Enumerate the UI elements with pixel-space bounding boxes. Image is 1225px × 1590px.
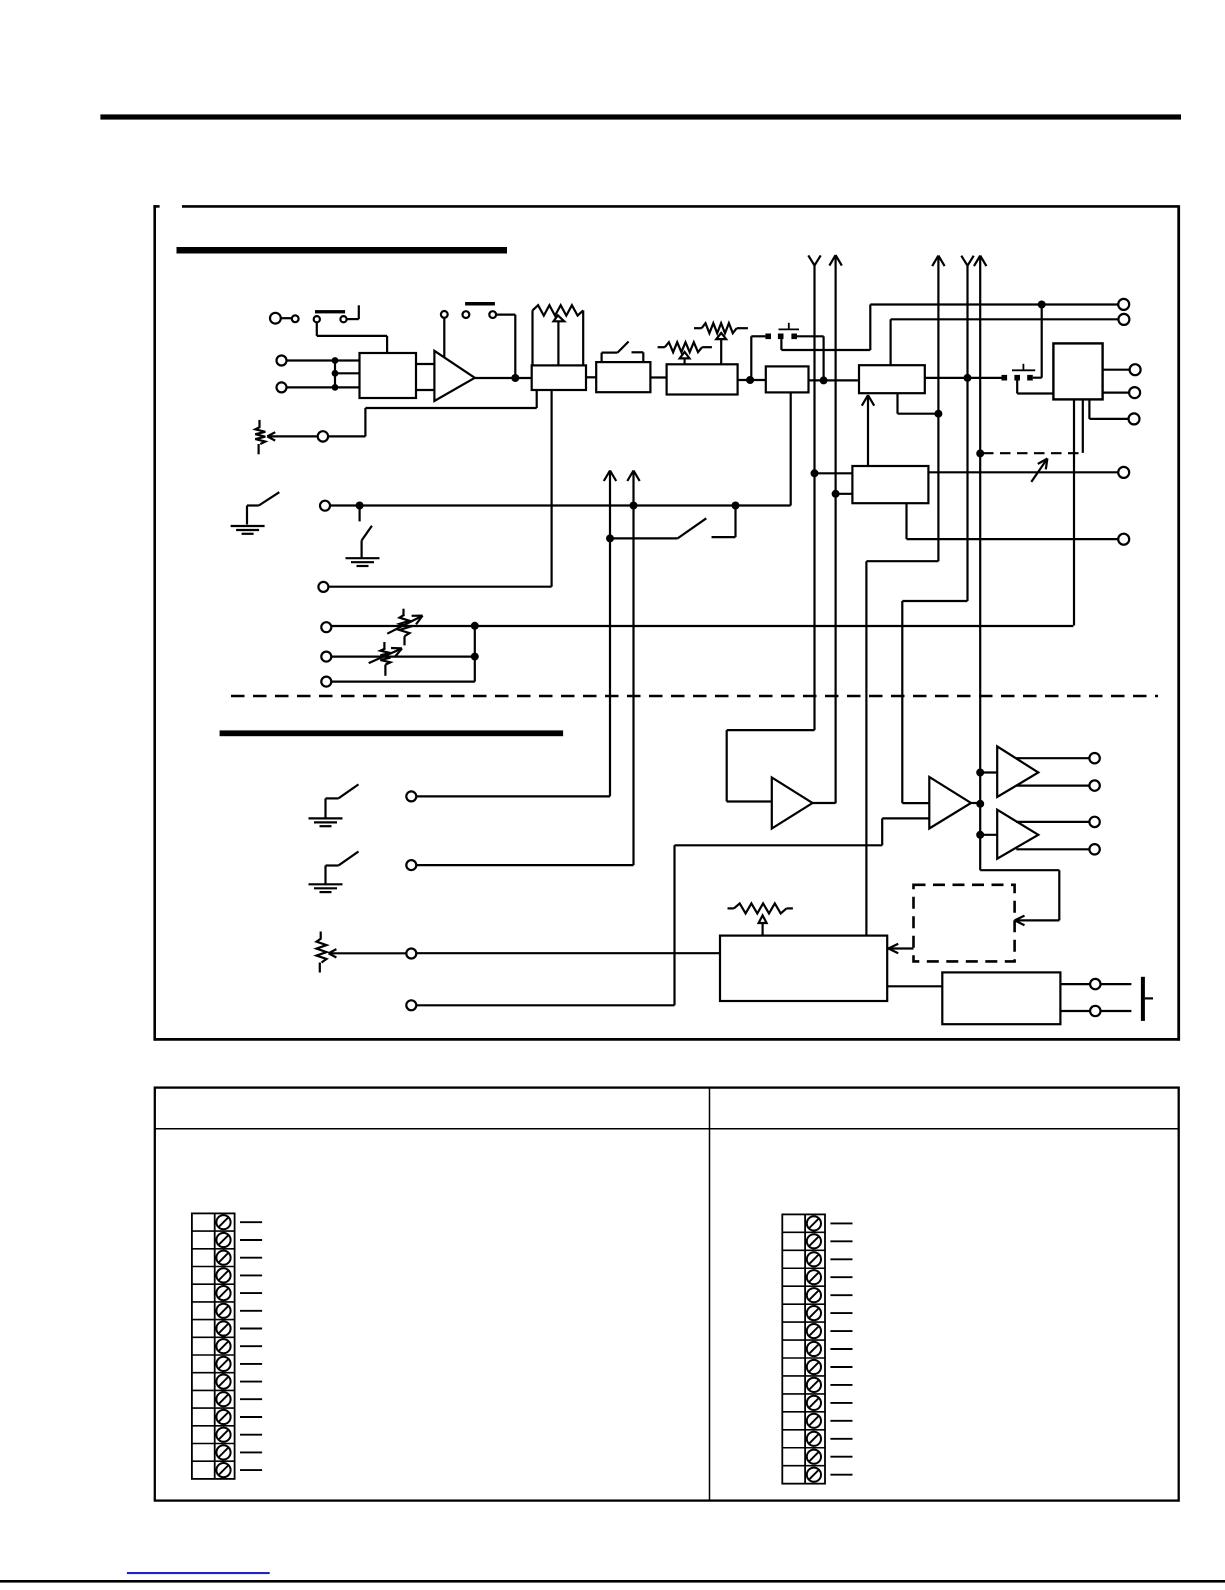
output terminal 4 — [1129, 387, 1140, 398]
node I — [471, 622, 479, 630]
trim terminal 3 — [321, 622, 331, 632]
node C — [1038, 301, 1046, 309]
diagram box border — [153, 205, 156, 1040]
buffer B2 — [929, 777, 971, 829]
ground G2 — [346, 557, 380, 559]
gain adjust arrow — [1031, 459, 1047, 482]
U8 input stub 1 — [811, 469, 819, 477]
rheostat VR4 — [694, 327, 702, 329]
trim line 3 — [332, 625, 1074, 627]
line out terminal 3 — [1089, 817, 1099, 827]
rail V5 to AGC box — [980, 869, 1059, 871]
rheostat VR8 — [728, 907, 734, 909]
output buffer B3 — [997, 746, 1038, 797]
block U4 — [667, 364, 738, 394]
U10 output wire 2 — [1060, 1010, 1089, 1012]
control terminal 2 — [406, 860, 416, 870]
wire terminal to transducer — [1101, 983, 1132, 985]
rail V3 arrow — [932, 256, 938, 267]
line out terminal 2 — [1089, 780, 1099, 790]
block U8 — [852, 466, 928, 503]
wire C1 to node B — [797, 335, 824, 337]
B4 output wire 2 — [1016, 848, 1089, 850]
input terminal IN+ — [277, 356, 287, 366]
table header separator — [155, 1128, 1179, 1130]
wire node A to C1 — [750, 336, 752, 380]
rail V1 to buffer B1 input — [727, 729, 815, 731]
output terminal 7 — [1118, 534, 1129, 545]
AGC dashed box — [914, 885, 1015, 962]
rail V2 arrow — [829, 255, 835, 266]
trim terminal 5 — [321, 677, 331, 687]
mute logic switch SW5 — [606, 534, 614, 542]
U2 feedback pin wire — [536, 390, 538, 408]
wire AGC to mixer — [888, 947, 913, 949]
B3 input node — [976, 769, 984, 777]
rail V1 arrow — [808, 255, 814, 265]
wire U5 to U6 — [809, 379, 860, 381]
footer link underline — [127, 1572, 270, 1574]
gain pot resistor VR1 — [533, 305, 584, 315]
output buffer B4 — [997, 810, 1038, 859]
rail V5 arrow — [974, 256, 980, 267]
control line 2 — [417, 864, 634, 866]
gain terminal — [318, 431, 328, 441]
rheostat VR7 — [320, 932, 322, 939]
wire C2 to node C — [1033, 377, 1042, 379]
section 1 title underline — [177, 247, 508, 254]
wire U6 to C2 — [925, 377, 1002, 379]
node E — [976, 449, 984, 457]
output terminal 5 — [1129, 413, 1140, 424]
capacitor C1 trim symbol — [779, 328, 800, 330]
U6 top pin wire — [889, 319, 891, 365]
node H — [732, 502, 740, 510]
U8 bottom pin wire — [905, 503, 907, 539]
wire U4 to C-block — [738, 379, 766, 381]
control line 4 — [417, 1004, 675, 1006]
wire U2 to U3 — [586, 376, 596, 378]
mixer block U9 — [720, 936, 887, 1001]
U7 adjust pin vertical — [1082, 399, 1084, 453]
input block U1 — [360, 353, 417, 398]
table column divider — [709, 1088, 711, 1501]
output terminal 2 — [1118, 314, 1129, 325]
wires into input block — [335, 359, 360, 361]
rheostat VR2 — [258, 420, 260, 427]
mute terminal — [320, 501, 330, 511]
node G — [630, 502, 638, 510]
U8 right pin wire — [928, 471, 1118, 473]
mute bus wire — [330, 504, 791, 506]
wire U9 to U10 — [887, 985, 942, 987]
output terminal 1 — [1118, 299, 1129, 310]
switch S2 contacts — [463, 311, 470, 318]
VR8 wiper — [759, 915, 767, 923]
switch S1 contact bar — [315, 310, 345, 313]
input select circle pair — [270, 313, 281, 324]
wire IN- to junction — [287, 386, 336, 388]
wires U1 to amp — [416, 363, 434, 365]
wire IN+ to junction — [287, 359, 336, 361]
terminal strip TB1 — [192, 1213, 235, 1479]
rheostat VR6 — [383, 642, 385, 648]
gain pot block U2 — [532, 365, 586, 390]
terminal strip TB2 — [782, 1214, 825, 1483]
rail V4 arrow — [961, 256, 967, 266]
header rule — [100, 114, 1181, 119]
block U6 — [859, 365, 925, 393]
rail V4 jog to buffer B2 — [902, 600, 967, 602]
switch S1 contacts — [314, 316, 320, 322]
buffer B1 output wire — [813, 802, 836, 804]
U7 status pin vertical — [1073, 399, 1075, 625]
switch SW6 to ground — [326, 797, 339, 799]
section 2 title underline — [220, 730, 563, 736]
node B — [820, 376, 828, 384]
U10 output wire 1 — [1060, 983, 1089, 985]
VR3 wiper — [680, 352, 690, 359]
reference terminal — [318, 582, 328, 592]
switch SW7 to ground — [326, 864, 339, 866]
ground G1 — [231, 525, 265, 527]
U2 bottom pin wire — [550, 390, 552, 587]
transducer element — [1141, 977, 1145, 1021]
buffer B1 — [772, 778, 813, 829]
wire terminal to transducer 2 — [1101, 1010, 1132, 1012]
amp top pin circle — [441, 311, 448, 318]
node J — [471, 653, 479, 661]
mute switch SW3 to ground — [247, 504, 259, 506]
wire VR7 to terminal — [329, 952, 407, 954]
U3 bypass switch — [600, 353, 602, 363]
terminal table border — [155, 1088, 1179, 1501]
amp output wire — [475, 377, 532, 379]
amplifier A1 — [434, 351, 474, 401]
wire S1 to input block top — [316, 322, 318, 336]
node A — [746, 376, 754, 384]
wire C1 mid to output line — [780, 339, 782, 350]
output terminal 6 — [1118, 467, 1129, 478]
speaker terminal 2 — [1090, 1006, 1100, 1016]
B4 input node — [976, 831, 984, 839]
B3 output wire 2 — [1016, 784, 1089, 786]
line out terminal 1 — [1089, 753, 1099, 763]
control terminal 1 — [406, 791, 416, 801]
switch S2 contact bar — [465, 302, 495, 306]
speaker terminal 1 — [1090, 979, 1100, 989]
rheostat VR2 wire to terminal — [267, 435, 317, 437]
wire C2 mid to U7 — [1016, 381, 1018, 394]
B4 output wire 1 — [1016, 821, 1089, 823]
U7 bottom pin wire to terminal — [1088, 399, 1090, 419]
footer rule — [0, 1580, 1225, 1583]
rheostat VR3 — [658, 346, 665, 348]
wire gain terminal to feedback — [328, 435, 365, 437]
U6 bottom pin wire — [896, 393, 898, 414]
wire U3 to U4 — [650, 376, 666, 378]
U8 top arrow wire — [867, 395, 869, 466]
driver block U10 — [942, 972, 1060, 1024]
input junction dots — [332, 357, 339, 364]
control terminal 4 — [406, 1000, 416, 1010]
gain adjust dashed wire — [983, 452, 1083, 454]
U8 input stub 2 — [832, 490, 840, 498]
control terminal 3 — [406, 949, 416, 959]
control line 3 — [417, 952, 721, 954]
capacitor C1 pads — [765, 334, 771, 340]
wire to output terminal 1 — [870, 303, 1118, 305]
input terminal IN- — [277, 382, 287, 392]
rail V3 jog to mixer — [866, 560, 938, 562]
line out terminal 4 — [1089, 844, 1099, 854]
wire from S1 right contact — [347, 318, 359, 320]
output terminal 3 — [1130, 364, 1141, 375]
VR4 wiper — [716, 333, 726, 339]
node amp output — [511, 374, 519, 382]
B3 output wire 1 — [1016, 757, 1089, 759]
rheostat VR5 — [402, 609, 404, 615]
node D — [964, 374, 972, 382]
section separator dashed line — [231, 695, 1158, 698]
U7 right pin 2 — [1103, 392, 1129, 394]
block U3 — [596, 362, 650, 392]
reference wire crossing — [328, 586, 330, 588]
capacitor C2 trim symbol — [1012, 369, 1035, 371]
control line 1 — [417, 795, 611, 797]
buffer B2 output node — [971, 802, 980, 804]
gain pot feedback legs — [531, 310, 533, 365]
ground G4 — [309, 883, 343, 885]
U7 right pin 1 — [1103, 369, 1130, 371]
wire S2 to amp output node — [496, 314, 515, 316]
block U7 — [1053, 343, 1102, 399]
capacitor C2 pads — [1002, 375, 1008, 381]
trim line 5 — [332, 680, 475, 682]
ground G3 — [309, 817, 343, 819]
gain pot wiper — [554, 315, 565, 321]
trim terminal 4 — [321, 652, 331, 662]
drop switch SW4 — [359, 506, 361, 522]
block U5 — [766, 366, 809, 392]
node F — [356, 502, 364, 510]
trim line 4 — [332, 655, 475, 657]
